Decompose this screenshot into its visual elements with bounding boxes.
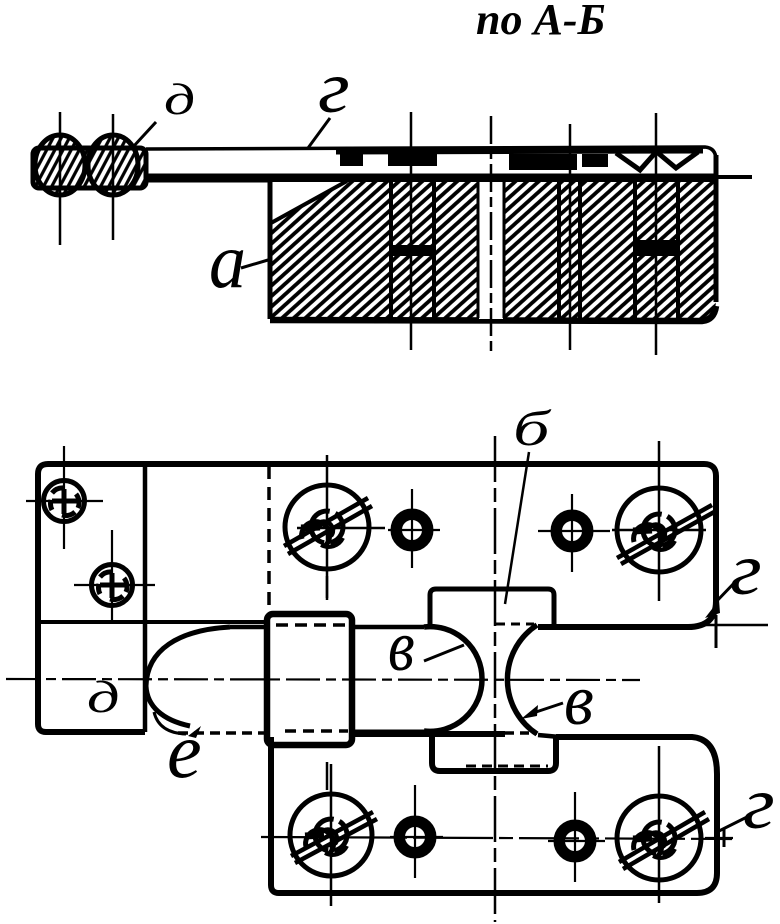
- divider vertical x145: [143, 464, 148, 732]
- screw hole lines x391: [389, 182, 393, 318]
- hidden plate edge under boss: [496, 623, 534, 626]
- bolt head circle left fill: [35, 135, 85, 195]
- screw hole lines x434: [432, 182, 436, 318]
- wedge diagonal line: [271, 181, 347, 223]
- bar V mark: [616, 152, 698, 170]
- svg-text:по А-Б: по А-Б: [476, 0, 605, 44]
- screw hole lines x580: [578, 182, 582, 318]
- plate divider bottom edge y622: [38, 620, 268, 624]
- BOTTOM PLAN VIEW: [6, 402, 775, 922]
- latch bolt head arc: [424, 627, 482, 732]
- screw cross bar left: [391, 245, 436, 256]
- merged thick line bolt bottom / boss top: [352, 731, 505, 737]
- svg-text:в: в: [388, 606, 415, 686]
- label а leader: [241, 260, 268, 268]
- tick x724 lower: [723, 829, 726, 847]
- hole slot left edge: [477, 182, 480, 318]
- thin ring hole (572,531): [538, 494, 610, 572]
- big screw (327,527): [284, 485, 372, 569]
- bolt head circle right outline: [88, 135, 138, 195]
- screw hole lines x559: [557, 182, 561, 318]
- thin extension right of bar line: [716, 175, 752, 179]
- centerline x656: [655, 113, 658, 355]
- main vertical centerline x495: [494, 436, 497, 922]
- svg-text:а: а: [209, 218, 246, 304]
- bar slot mark 4: [582, 154, 608, 167]
- screw hole lines x678: [676, 182, 680, 318]
- hole slot right edge: [503, 182, 506, 318]
- screw cross bar right: [635, 240, 680, 256]
- bolt centerline left: [59, 112, 62, 245]
- thin ring hole (412,530): [388, 489, 440, 568]
- thin ring hole (415,837): [390, 785, 443, 878]
- bar slot mark 2: [388, 153, 437, 166]
- tick x716: [715, 615, 718, 648]
- svg-text:е: е: [167, 707, 202, 794]
- TOP SECTION VIEW: [33, 46, 752, 355]
- slide bar bottom thick line: [146, 174, 716, 183]
- upper boss б: [430, 589, 554, 627]
- svg-text:б: б: [513, 402, 551, 457]
- wedge white triangle: [270, 182, 346, 224]
- thin line y625 right ext: [700, 624, 768, 627]
- latch bolt top edge: [230, 625, 270, 630]
- block right edge: [714, 155, 719, 302]
- latch bolt left end arc: [146, 627, 230, 726]
- center hole white slot: [479, 182, 503, 319]
- svg-text:г: г: [730, 528, 762, 610]
- bar slot mark 3: [509, 154, 577, 170]
- svg-text:д: д: [164, 75, 195, 124]
- main horizontal centerline y679: [6, 679, 640, 680]
- recess arc: [507, 625, 537, 734]
- lower boss: [432, 735, 556, 771]
- latch bolt bottom edge: [352, 730, 434, 735]
- centerline x412: [410, 112, 413, 350]
- lower row horizontal centerline: [261, 837, 732, 839]
- big screw (331,835): [290, 794, 377, 876]
- phillips screw 2: [74, 530, 155, 623]
- bar slot mark 1: [340, 154, 363, 166]
- lower plate top edge from recess: [538, 735, 560, 737]
- slide bar (г) top edge: [146, 147, 716, 160]
- guide sleeve: [267, 614, 352, 745]
- sleeve vertical centerline marks: [326, 576, 329, 600]
- big screw (659,838): [617, 796, 709, 880]
- thin ring hole (575,841): [548, 792, 605, 882]
- block left edge: [268, 180, 273, 319]
- centerline ext y838 right: [705, 837, 733, 839]
- left small plate д: [38, 622, 145, 732]
- bolt head circle right fill: [88, 135, 138, 195]
- big screw (659,530): [617, 488, 716, 572]
- lower plate outline: [271, 737, 717, 893]
- svg-text:д: д: [87, 672, 120, 723]
- screw hole lines x635: [633, 182, 637, 318]
- bolt head block (hatched): [33, 148, 146, 188]
- centerline x570: [569, 124, 572, 350]
- bolt head circle left outline: [35, 135, 85, 195]
- svg-text:г: г: [318, 46, 350, 128]
- block bottom edge: [270, 306, 716, 321]
- svg-text:в: в: [564, 660, 594, 740]
- phillips screw 1: [26, 446, 103, 549]
- label г leader: [308, 118, 330, 148]
- hidden line x269: [267, 466, 271, 614]
- upper plate outline: [38, 464, 716, 627]
- body block (а) hatched: [270, 182, 716, 320]
- dashes in lower boss: [466, 765, 548, 768]
- slide bar top edge thick mid segment: [336, 150, 703, 151]
- bolt centerline right: [112, 114, 115, 240]
- svg-text:г: г: [743, 762, 775, 844]
- centerline x491: [490, 116, 493, 352]
- label д leader: [133, 122, 156, 147]
